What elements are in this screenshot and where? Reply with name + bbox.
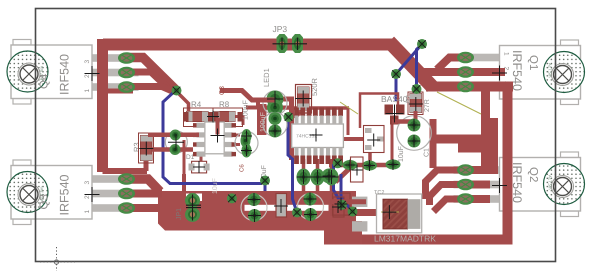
svg-text:Q4: Q4	[39, 73, 51, 89]
svg-text:LM317MADTRK: LM317MADTRK	[374, 234, 436, 244]
svg-text:C6: C6	[239, 164, 246, 172]
svg-text:10uF: 10uF	[212, 178, 219, 194]
svg-text:2: 2	[84, 74, 91, 78]
svg-text:Q2: Q2	[527, 167, 539, 182]
svg-text:R3: R3	[132, 142, 141, 152]
svg-text:2: 2	[84, 195, 91, 199]
svg-text:3: 3	[84, 181, 91, 185]
svg-text:3: 3	[84, 60, 91, 64]
svg-text:A17,5m: A17,5m	[548, 175, 553, 190]
svg-text:Q3: Q3	[39, 194, 51, 209]
svg-text:JP3: JP3	[273, 24, 288, 34]
svg-text:JP1: JP1	[176, 208, 183, 220]
svg-text:LED1: LED1	[262, 68, 271, 87]
svg-text:IRF540: IRF540	[58, 174, 72, 215]
svg-text:27R: 27R	[424, 99, 431, 112]
svg-text:10uF: 10uF	[398, 146, 405, 162]
svg-text:C1: C1	[424, 148, 431, 157]
svg-text:D1: D1	[186, 154, 195, 161]
svg-text:Q1: Q1	[527, 55, 539, 70]
svg-text:1: 1	[84, 210, 91, 214]
svg-text:74HC132: 74HC132	[296, 134, 317, 140]
svg-text:1: 1	[84, 89, 91, 93]
svg-text:IRF540: IRF540	[58, 54, 72, 95]
svg-text:A17,5m: A17,5m	[548, 63, 553, 78]
svg-text:R4: R4	[191, 100, 202, 109]
svg-text:100uF: 100uF	[243, 100, 250, 120]
svg-text:TC2: TC2	[374, 190, 384, 196]
svg-text:R2: R2	[405, 95, 412, 103]
svg-text:BAS40: BAS40	[381, 94, 408, 104]
svg-text:C3: C3	[219, 86, 226, 95]
svg-text:1: 1	[503, 52, 510, 56]
svg-text:R8: R8	[219, 100, 230, 109]
svg-text:520R: 520R	[310, 77, 319, 96]
